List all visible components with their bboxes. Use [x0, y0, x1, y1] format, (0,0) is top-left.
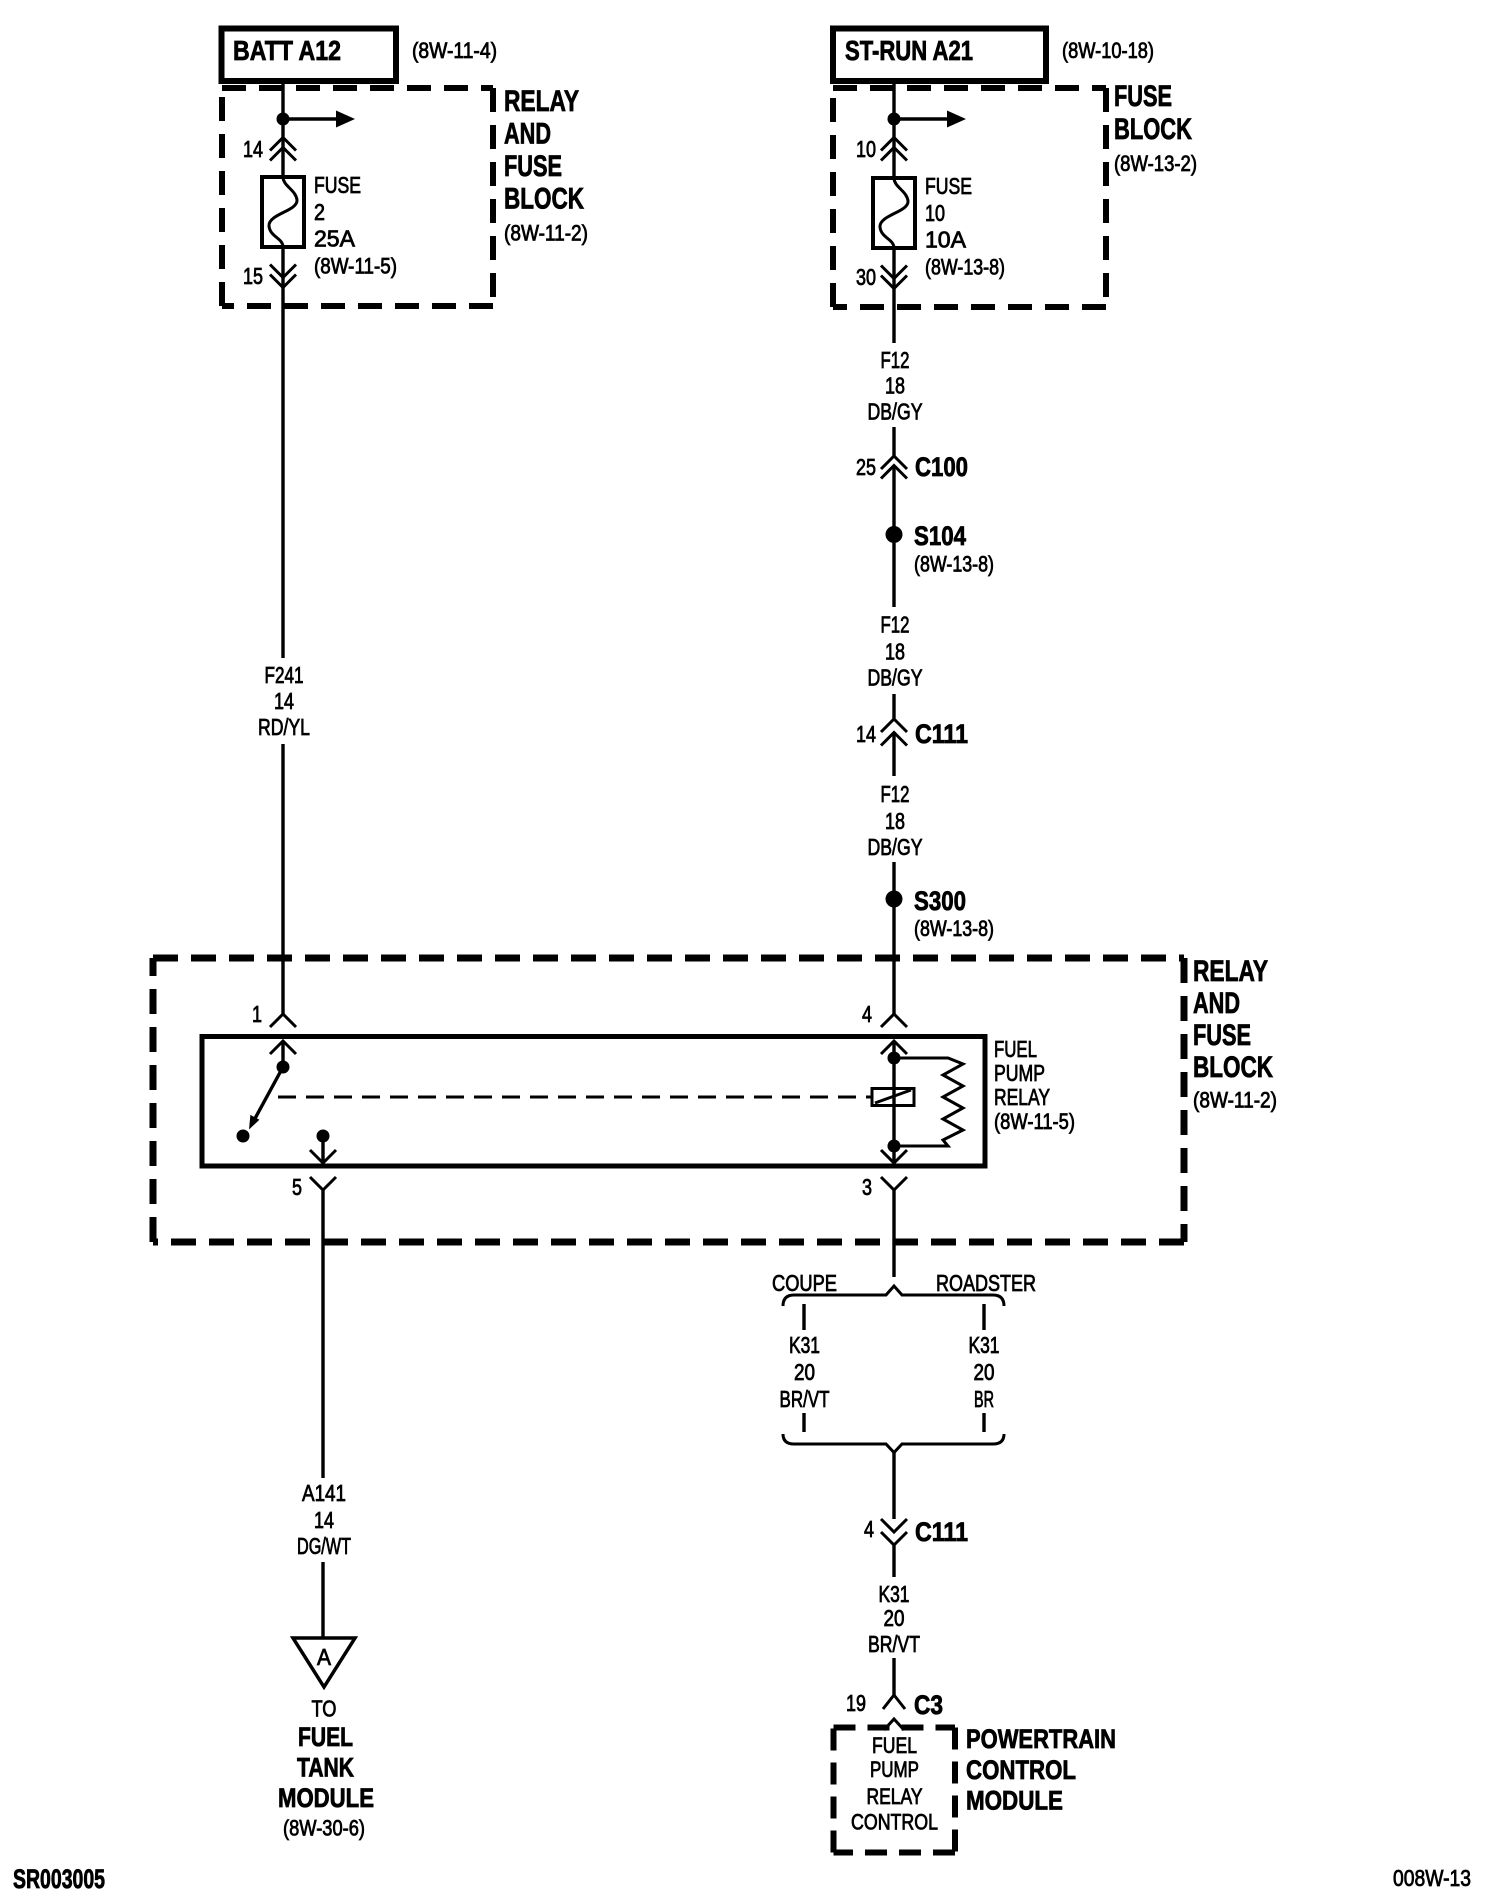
svg-text:FUSE: FUSE [314, 172, 361, 198]
wire switch output to pin 5 [321, 1136, 324, 1163]
connector chevrons pin 10 [881, 138, 907, 151]
svg-text:TANK: TANK [297, 1753, 354, 1783]
svg-text:COUPE: COUPE [772, 1270, 837, 1296]
connector C111 chevrons (pin 14) [881, 719, 907, 732]
pin 3 connector chevrons [881, 1150, 907, 1163]
splice S104 [886, 526, 903, 543]
power feed box BATT A12 [222, 29, 397, 82]
wire A141 lower segment [321, 1562, 324, 1638]
svg-text:DB/GY: DB/GY [868, 399, 923, 425]
svg-text:4: 4 [864, 1516, 874, 1542]
svg-text:(8W-11-5): (8W-11-5) [314, 254, 397, 279]
svg-text:BLOCK: BLOCK [1114, 113, 1192, 146]
svg-text:C3: C3 [914, 1690, 943, 1720]
wire F12 segment 5 [892, 694, 895, 720]
svg-text:008W-13: 008W-13 [1393, 1865, 1471, 1891]
pin 5 connector chevrons [310, 1150, 336, 1163]
svg-text:5: 5 [292, 1174, 302, 1200]
connector C111 chevrons (pin 4) [881, 1519, 907, 1532]
svg-text:A141: A141 [302, 1480, 346, 1506]
svg-text:POWERTRAIN: POWERTRAIN [966, 1724, 1116, 1754]
wire ST-RUN feed to fuse 10 [892, 82, 895, 179]
svg-text:BATT A12: BATT A12 [233, 35, 341, 66]
svg-text:AND: AND [1193, 987, 1240, 1020]
svg-text:(8W-13-8): (8W-13-8) [914, 552, 994, 577]
svg-text:CONTROL: CONTROL [966, 1755, 1076, 1785]
wire F12 segment 3 [892, 466, 895, 535]
svg-text:F12: F12 [881, 612, 910, 638]
svg-text:C100: C100 [915, 452, 968, 482]
wire BATT A12 feed to fuse 2 [281, 82, 284, 178]
svg-text:TO: TO [312, 1696, 337, 1722]
svg-text:(8W-11-2): (8W-11-2) [504, 221, 588, 246]
splice S300 [886, 891, 903, 908]
wire A141 upper segment [321, 1190, 324, 1478]
fuse 10 element [880, 178, 908, 248]
switch common node [277, 1061, 290, 1074]
wire coil to pin 3 [892, 1146, 895, 1163]
svg-text:DG/WT: DG/WT [297, 1533, 351, 1559]
wire F12 segment 2 [892, 427, 895, 457]
svg-text:(8W-11-5): (8W-11-5) [994, 1109, 1075, 1134]
wire F241 lower segment to relay pin 1 [281, 744, 284, 1015]
svg-text:FUEL: FUEL [298, 1722, 353, 1752]
pin 5 contact node [317, 1130, 330, 1143]
relay coil actuator box [872, 1089, 914, 1106]
wire F12 segment 4 [892, 543, 895, 607]
svg-text:FUSE: FUSE [925, 173, 972, 199]
svg-text:DB/GY: DB/GY [868, 665, 923, 691]
svg-text:10: 10 [925, 200, 945, 226]
fuse 10 box [873, 178, 915, 248]
connector chevrons pin 15 [270, 265, 296, 278]
coupe branch wire stub upper [802, 1304, 805, 1330]
svg-text:AND: AND [504, 118, 551, 151]
svg-text:20: 20 [974, 1359, 995, 1385]
svg-text:RELAY: RELAY [867, 1784, 923, 1809]
svg-text:PUMP: PUMP [870, 1757, 919, 1782]
fuel pump relay box [202, 1037, 985, 1167]
svg-text:30: 30 [856, 264, 876, 290]
connector C100 chevrons [881, 456, 907, 469]
svg-text:14: 14 [856, 721, 876, 747]
junction node on BATT feed [277, 113, 290, 126]
relay coil resistor [894, 1058, 963, 1146]
svg-text:RELAY: RELAY [1193, 955, 1268, 988]
svg-text:3: 3 [862, 1174, 872, 1200]
svg-text:F241: F241 [265, 662, 304, 688]
connector chevrons pin 30 [881, 266, 907, 279]
svg-text:2: 2 [314, 199, 325, 225]
svg-text:(8W-13-8): (8W-13-8) [914, 916, 994, 941]
svg-text:K31: K31 [879, 1581, 910, 1607]
off-page connector triangle A [293, 1638, 355, 1687]
svg-text:1: 1 [252, 1001, 262, 1027]
wire F12 segment 8 to relay pin 4 [892, 907, 895, 1015]
power feed box ST-RUN A21 [833, 29, 1046, 82]
svg-text:18: 18 [885, 373, 905, 399]
fuse 2 box [262, 177, 304, 247]
roadster branch wire stub lower [982, 1413, 985, 1432]
svg-text:S104: S104 [914, 521, 966, 551]
svg-text:MODULE: MODULE [278, 1783, 374, 1813]
svg-text:F12: F12 [881, 781, 910, 807]
svg-text:FUSE: FUSE [1193, 1019, 1251, 1052]
svg-text:S300: S300 [914, 886, 966, 916]
svg-text:10A: 10A [925, 227, 967, 253]
svg-text:BR: BR [974, 1386, 994, 1412]
svg-text:18: 18 [885, 639, 905, 665]
svg-text:RD/YL: RD/YL [258, 714, 310, 740]
wire F12 segment 6 [892, 733, 895, 776]
wire F12 segment 1 [892, 248, 895, 343]
svg-text:BR/VT: BR/VT [780, 1386, 830, 1412]
pin 4 connector chevrons [881, 1014, 907, 1027]
svg-text:FUEL: FUEL [872, 1733, 917, 1758]
wire F241 upper segment [281, 247, 284, 658]
svg-text:10: 10 [856, 136, 876, 162]
svg-text:K31: K31 [789, 1332, 820, 1358]
svg-text:CONTROL: CONTROL [851, 1810, 938, 1835]
coil top node [888, 1052, 901, 1065]
svg-text:FUSE: FUSE [1114, 80, 1172, 113]
fuse 2 element [269, 177, 297, 247]
coil bottom node [888, 1140, 901, 1153]
svg-text:ST-RUN A21: ST-RUN A21 [845, 35, 973, 66]
wire K31 to C3 [892, 1658, 895, 1695]
svg-text:20: 20 [794, 1359, 815, 1385]
svg-text:25: 25 [856, 454, 876, 480]
svg-text:F12: F12 [881, 347, 910, 373]
svg-text:BLOCK: BLOCK [504, 183, 584, 216]
svg-text:PUMP: PUMP [994, 1060, 1045, 1086]
svg-text:18: 18 [885, 808, 905, 834]
pin 1 connector chevrons [270, 1014, 296, 1027]
relay and fuse block (middle) dashed outline [153, 958, 1184, 1242]
svg-text:C111: C111 [915, 1517, 968, 1547]
svg-text:14: 14 [314, 1507, 334, 1533]
powertrain control module dashed outline [834, 1728, 956, 1853]
svg-text:DB/GY: DB/GY [868, 834, 923, 860]
svg-text:20: 20 [884, 1605, 905, 1631]
relay switch arm [252, 1067, 283, 1124]
connector C3 chevrons [883, 1695, 905, 1709]
svg-text:RELAY: RELAY [994, 1084, 1050, 1110]
roadster branch wire stub upper [982, 1304, 985, 1330]
svg-text:19: 19 [846, 1690, 866, 1716]
svg-text:BLOCK: BLOCK [1193, 1051, 1273, 1084]
wire K31 segment below C111 [892, 1545, 895, 1577]
svg-text:(8W-11-2): (8W-11-2) [1193, 1088, 1277, 1113]
svg-text:RELAY: RELAY [504, 85, 579, 118]
branch split brace COUPE/ROADSTER [783, 1286, 1004, 1306]
svg-text:15: 15 [243, 263, 263, 289]
svg-text:4: 4 [862, 1001, 872, 1027]
wire pin 1 to switch common [281, 1041, 284, 1067]
relay and fuse block (top-left) dashed outline [222, 88, 493, 306]
svg-text:(8W-10-18): (8W-10-18) [1062, 38, 1154, 63]
branch merge brace [783, 1434, 1004, 1453]
connector chevrons pin 14 [270, 138, 296, 151]
svg-text:14: 14 [274, 688, 294, 714]
svg-text:MODULE: MODULE [966, 1786, 1063, 1816]
feed arrow to other circuits [283, 117, 336, 120]
switch contact node [237, 1130, 250, 1143]
wire pin 4 through coil [892, 1041, 895, 1146]
svg-text:(8W-11-4): (8W-11-4) [412, 38, 497, 63]
wire F12 segment 7 [892, 862, 895, 899]
junction node on ST-RUN feed [888, 113, 901, 126]
wire relay pin 3 down [892, 1190, 895, 1277]
feed arrow to other circuits [894, 117, 947, 120]
svg-text:SR003005: SR003005 [13, 1864, 105, 1894]
svg-text:K31: K31 [969, 1332, 1000, 1358]
svg-text:(8W-13-2): (8W-13-2) [1114, 151, 1197, 176]
svg-text:(8W-30-6): (8W-30-6) [283, 1816, 365, 1841]
svg-text:14: 14 [243, 136, 263, 162]
svg-text:C111: C111 [915, 719, 968, 749]
coupe branch wire stub lower [802, 1413, 805, 1432]
svg-text:25A: 25A [314, 226, 356, 252]
svg-text:FUSE: FUSE [504, 150, 562, 183]
svg-text:ROADSTER: ROADSTER [936, 1270, 1036, 1296]
fuse block (top-right) dashed outline [833, 88, 1106, 307]
svg-text:FUEL: FUEL [994, 1036, 1037, 1062]
wire K31 to C111 [892, 1452, 895, 1519]
svg-text:A: A [317, 1644, 332, 1670]
relay actuation dashed line [278, 1096, 872, 1099]
svg-text:BR/VT: BR/VT [868, 1631, 920, 1657]
svg-text:(8W-13-8): (8W-13-8) [925, 255, 1005, 280]
